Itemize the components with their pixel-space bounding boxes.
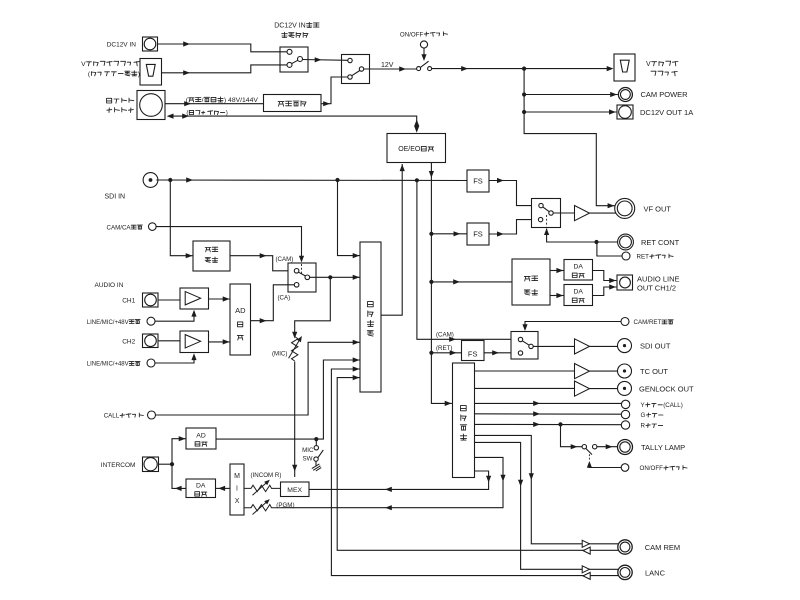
- switch S5 MIC SW: [302, 439, 323, 465]
- label (RET): [436, 345, 453, 352]
- svg-text:OE/EO: OE/EO: [398, 146, 421, 153]
- wire S7 to amp: [533, 345, 574, 347]
- amp A6 GENLOCK OUT: [575, 381, 590, 396]
- svg-text:(CAM): (CAM): [436, 331, 454, 338]
- svg-text:CAM/CA: CAM/CA: [107, 224, 132, 231]
- driver D4 LANC in: [583, 572, 590, 579]
- svg-text:VF OUT: VF OUT: [644, 204, 672, 213]
- box U8 MIX: [230, 464, 244, 515]
- switch S3 main ON/OFF: [417, 41, 432, 71]
- label power/control line 48V/144V: [186, 97, 259, 104]
- svg-text:LANC: LANC: [645, 568, 666, 577]
- connector J25 R tally: [621, 421, 662, 430]
- svg-text:FS: FS: [473, 230, 483, 239]
- svg-text:/: /: [202, 97, 204, 104]
- svg-text:FS: FS: [468, 349, 478, 358]
- switch S7 CAM/RET SDI select: [511, 332, 538, 360]
- amp A2 CH2: [180, 331, 209, 353]
- wire CAM REM out: [475, 435, 619, 543]
- box U10 FS frame sync 1: [467, 170, 489, 192]
- switch S6 VF source select: [532, 199, 561, 228]
- wire R tally: [475, 422, 622, 427]
- wire AD intercom to mux: [216, 357, 360, 441]
- box U7 DA converter intercom: [186, 479, 216, 498]
- wire 12V to DC12V OUT: [522, 95, 616, 115]
- wire SDI (CAM) to output switch: [417, 180, 519, 342]
- wire A2 to AD: [209, 339, 230, 344]
- svg-text:DA: DA: [574, 264, 584, 271]
- wire select1 to A1: [155, 310, 197, 321]
- connector J3 optical multi connector: [107, 91, 165, 120]
- wire A1 to AD: [209, 296, 230, 301]
- svg-text:MEX: MEX: [287, 487, 302, 494]
- svg-text:CAM REM: CAM REM: [645, 543, 680, 552]
- svg-text:): ): [138, 71, 140, 78]
- wire 12V to CAM POWER: [522, 69, 618, 98]
- wire FS3 to switch: [484, 350, 518, 355]
- wire demux to TC amp: [475, 370, 575, 372]
- wire S1 to S2: [303, 57, 348, 62]
- connector J26 TALLY LAMP: [618, 440, 686, 455]
- wire optical connector to power supply: [165, 101, 263, 106]
- wire CAM REM return: [337, 375, 619, 550]
- pot VR1 MIC level: [272, 336, 302, 361]
- svg-text:SDI OUT: SDI OUT: [640, 342, 671, 351]
- wire DA1 to line out: [593, 271, 617, 284]
- box U1 power supply circuit: [264, 95, 322, 112]
- label (CA) switch: [278, 295, 291, 302]
- wire tally switch to lamp: [597, 444, 617, 449]
- amp A1 CH1: [180, 288, 209, 309]
- connector J14 INTERCOM: [101, 457, 159, 472]
- wire LANC out: [475, 442, 619, 569]
- wire FS2 to VF switch: [489, 220, 538, 237]
- svg-text:DC12V OUT 1A: DC12V OUT 1A: [640, 108, 693, 117]
- wire CAM/RET control: [522, 322, 621, 332]
- svg-text:CAM/RET: CAM/RET: [634, 319, 662, 326]
- svg-text:RET CONT: RET CONT: [641, 238, 680, 247]
- connector J5 CAM POWER: [618, 88, 688, 102]
- svg-text:AUDIO IN: AUDIO IN: [95, 282, 124, 289]
- connector J7 SDI IN: [105, 173, 158, 201]
- wire RET to FS3: [431, 350, 461, 355]
- svg-text:ON/OFF: ON/OFF: [400, 31, 424, 38]
- box U6 AD converter intercom: [186, 428, 216, 449]
- box U4 AD converter audio: [230, 284, 251, 355]
- svg-text:Y: Y: [641, 402, 645, 409]
- svg-text:SW: SW: [303, 455, 313, 462]
- connector J16 RET CONT: [618, 234, 680, 250]
- driver D1 CAM REM out: [582, 540, 589, 547]
- connector J1 DC12V IN: [107, 37, 158, 51]
- connector J6 DC12V OUT 1A: [617, 105, 693, 119]
- wire DA to intercom connector: [172, 464, 186, 491]
- svg-text:12V: 12V: [381, 62, 394, 69]
- wire S4 junction to MIC pot: [292, 277, 330, 338]
- connector J9 CH1: [122, 293, 158, 307]
- svg-text:X: X: [235, 498, 240, 505]
- wire RET switch to RET CONT: [597, 242, 622, 256]
- box U16 signal demultiplexer: [453, 363, 475, 478]
- wire FS1 to VF switch: [489, 178, 539, 206]
- svg-text:TC OUT: TC OUT: [640, 367, 668, 376]
- wire DA2 to line out: [593, 284, 617, 295]
- svg-text:FS: FS: [473, 177, 483, 186]
- svg-text:TALLY LAMP: TALLY LAMP: [641, 443, 685, 452]
- amp A4 SDI OUT: [575, 339, 590, 354]
- switch S2 power select: [342, 55, 370, 84]
- wire RET CONT to VF switch: [544, 228, 618, 244]
- wire OE/EO to audio extract: [431, 279, 512, 284]
- box U3 audio extract left: [193, 241, 230, 271]
- svg-text:LINE/MIC/+48V: LINE/MIC/+48V: [87, 320, 129, 326]
- wire CH1 to A1: [158, 299, 180, 301]
- svg-text:INTERCOM: INTERCOM: [101, 462, 136, 469]
- connector J18 AUDIO LINE OUT CH1/2: [617, 274, 680, 292]
- wire S4 common to mux: [310, 275, 360, 280]
- svg-text:V: V: [646, 61, 651, 68]
- box U15 FS frame sync 3: [462, 341, 485, 361]
- svg-text:(CALL): (CALL): [663, 402, 683, 409]
- wire CAM/CA control: [156, 227, 304, 263]
- connector J24 G tally: [621, 410, 663, 419]
- wire GENLOCK amp to connector: [590, 388, 618, 390]
- ground GND1 MIC SW: [312, 464, 321, 471]
- svg-text:R: R: [641, 423, 646, 430]
- connector J11 CH2: [122, 334, 158, 348]
- svg-text:SDI IN: SDI IN: [105, 194, 126, 201]
- label (PGM): [276, 502, 294, 509]
- label DC12V IN priority auto-switch: [274, 22, 319, 37]
- connector J29 LANC: [618, 565, 666, 579]
- wire G tally: [475, 411, 622, 416]
- svg-text:DA: DA: [196, 483, 206, 490]
- pot VR2 INCOM R level: [244, 480, 281, 495]
- wire VF switch to amp: [553, 212, 574, 214]
- wire amp to VF OUT: [590, 212, 617, 214]
- connector J4 V-mount socket out: [614, 54, 678, 81]
- svg-text:CAM POWER: CAM POWER: [641, 90, 689, 99]
- svg-text:CH2: CH2: [122, 338, 135, 345]
- connector J2 V-mount socket (battery): [81, 59, 161, 86]
- wire 12V to VF OUT power: [524, 112, 615, 208]
- wire V-mount to S1: [162, 65, 288, 76]
- connector J20 SDI OUT: [618, 339, 671, 353]
- wire TC amp to connector: [590, 370, 618, 372]
- svg-text:ON/OFF: ON/OFF: [640, 465, 664, 472]
- switch S4 CAM/CA audio select: [288, 263, 316, 292]
- label (INCOM R): [251, 472, 282, 479]
- switch S8 tally lamp: [582, 445, 597, 455]
- svg-text:AUDIO LINE: AUDIO LINE: [637, 274, 680, 283]
- wire tally ON/OFF control: [587, 454, 621, 468]
- svg-text:CH1: CH1: [122, 298, 135, 305]
- connector J8 CAM/CA select: [107, 223, 157, 232]
- wire SDI to signal mux: [338, 180, 360, 258]
- wire CH2 to A2: [158, 340, 180, 342]
- wire intercom to AD: [172, 436, 186, 464]
- connector J28 CAM REM: [618, 540, 680, 554]
- wire mux to OE/EO input: [381, 164, 405, 315]
- wire MIX to DA: [216, 486, 231, 491]
- svg-text:(MIC): (MIC): [272, 351, 287, 358]
- wire power supply to S2: [321, 77, 348, 106]
- label AUDIO IN: [95, 282, 124, 289]
- driver D3 LANC out: [582, 566, 589, 573]
- svg-text:LINE/MIC/+48V: LINE/MIC/+48V: [87, 362, 129, 368]
- box U5 signal multiplexer: [360, 242, 381, 392]
- connector J23 Y tally (CALL): [621, 400, 682, 409]
- svg-text:) 48V/144V: ) 48V/144V: [224, 97, 258, 104]
- box U13 DA converter 1: [564, 260, 593, 281]
- svg-text:M: M: [234, 473, 240, 480]
- wire audio extract to CAM contact: [230, 253, 294, 271]
- label optical fiber: [186, 110, 227, 117]
- svg-text:(CAM): (CAM): [276, 256, 294, 263]
- wire AD to CA contact: [251, 285, 295, 324]
- svg-text:DA: DA: [574, 289, 584, 296]
- box U11 FS frame sync 2: [467, 223, 489, 245]
- wire 12V rail to V-mount out: [432, 66, 614, 71]
- svg-text:AD: AD: [235, 306, 246, 315]
- svg-text:RET: RET: [637, 254, 650, 261]
- wire LANC return: [331, 366, 618, 575]
- wire amp to SDI OUT: [590, 345, 618, 347]
- svg-text:V: V: [81, 61, 86, 68]
- svg-text:OUT CH1/2: OUT CH1/2: [637, 283, 676, 292]
- svg-text:G: G: [641, 412, 646, 419]
- connector J27 tally ON/OFF switch: [621, 464, 687, 472]
- wire Y tally: [475, 401, 622, 406]
- svg-text:GENLOCK OUT: GENLOCK OUT: [639, 385, 694, 394]
- wire extract to DA2: [550, 293, 564, 298]
- wire S2 to S3 12V: [364, 66, 417, 71]
- svg-text:I: I: [236, 485, 238, 492]
- driver D2 CAM REM in: [583, 547, 590, 554]
- wire MIC pot to MEX: [292, 362, 297, 478]
- wire select2 to A2: [155, 353, 197, 363]
- connector J17 RET switch: [622, 252, 673, 261]
- wire OE/EO output trunk: [429, 163, 452, 407]
- svg-text:MIC: MIC: [302, 447, 314, 454]
- wire SDI to audio extract L: [170, 180, 193, 258]
- connector J10 LINE/MIC select 1: [87, 317, 155, 326]
- connector J21 TC OUT: [618, 364, 669, 378]
- connector J13 CALL switch: [104, 411, 156, 420]
- amp A3 VF: [575, 206, 590, 221]
- switch S1 DC12V/V-mount auto select: [280, 47, 308, 72]
- wire extract to DA1: [550, 268, 564, 273]
- box U2 OE/EO converter: [387, 134, 446, 163]
- wire CALL to mux: [156, 340, 360, 415]
- pot VR3 PGM level: [244, 499, 281, 514]
- wire SDI IN trunk: [156, 177, 467, 182]
- svg-text:AD: AD: [196, 432, 206, 439]
- wire demux to GENLOCK amp: [475, 387, 575, 389]
- box U12 audio extract right: [512, 259, 550, 305]
- label ON/OFF switch top: [400, 31, 448, 38]
- wire R tally to lamp switch: [561, 424, 583, 449]
- label (CAM) switch: [276, 256, 294, 263]
- label 12V: [381, 62, 394, 69]
- box U9 MEX: [281, 482, 310, 497]
- svg-text:(INCOM R): (INCOM R): [251, 472, 282, 479]
- svg-text:DC12V IN: DC12V IN: [274, 23, 306, 30]
- wire intercom junction: [159, 462, 175, 466]
- connector J15 VF OUT: [615, 198, 672, 218]
- connector J22 GENLOCK OUT: [618, 381, 695, 395]
- label (CAM) upper: [436, 331, 454, 338]
- svg-text:DC12V IN: DC12V IN: [107, 41, 137, 48]
- box U14 DA converter 2: [564, 285, 593, 306]
- wire optical fiber bidirectional: [167, 114, 420, 133]
- wire OE/EO to FS2: [431, 231, 466, 236]
- connector J19 CAM/RET select: [621, 318, 673, 327]
- wire demux INCOM to MEX: [309, 471, 491, 492]
- svg-text:(CA): (CA): [278, 295, 291, 302]
- wire demux PGM to MIX: [281, 457, 506, 510]
- svg-text:CALL: CALL: [104, 413, 120, 420]
- wire DC12V IN to S1: [158, 41, 288, 51]
- amp A5 TC OUT: [575, 364, 590, 379]
- connector J12 LINE/MIC select 2: [87, 359, 155, 368]
